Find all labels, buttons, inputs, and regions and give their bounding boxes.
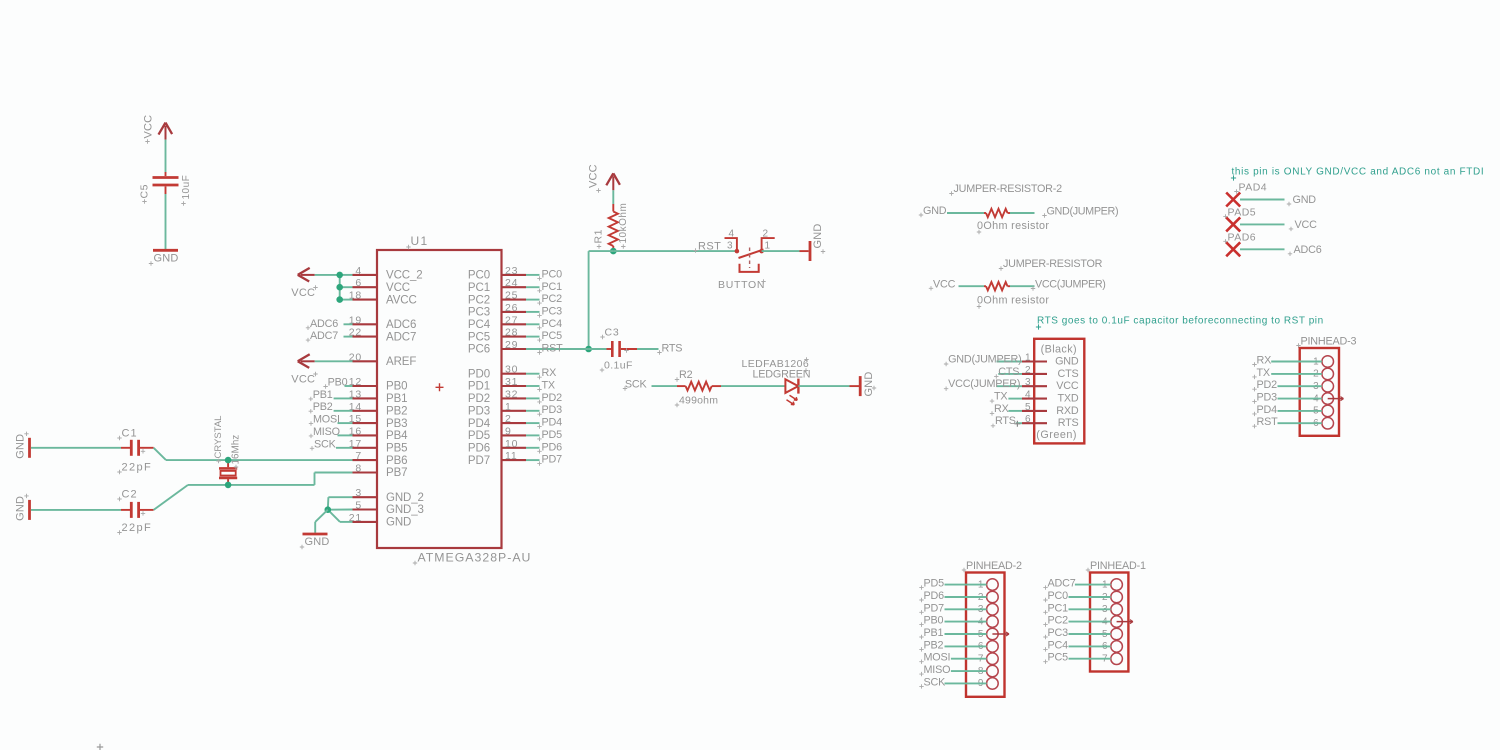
svg-text:GND(JUMPER): GND(JUMPER) — [1047, 206, 1119, 218]
wire and net label PC2 — [526, 293, 562, 305]
net label ADC7 — [306, 330, 353, 342]
svg-text:4: 4 — [1025, 390, 1031, 401]
wire GND to C1 — [31, 447, 121, 449]
svg-text:C3: C3 — [605, 327, 620, 339]
svg-text:PINHEAD-1: PINHEAD-1 — [1090, 560, 1146, 572]
svg-text:PB4: PB4 — [386, 430, 408, 442]
label LEDFAB1206 — [742, 357, 810, 370]
svg-text:PC1: PC1 — [1048, 602, 1069, 614]
svg-text:GND_3: GND_3 — [386, 504, 424, 516]
wire and net label PC5 — [526, 330, 562, 342]
button pin number 1 — [765, 241, 772, 252]
annotation text (RTS note) — [1036, 316, 1324, 330]
net label RST — [693, 241, 721, 253]
PINHEAD-2 pin 7 (MOSI) — [978, 653, 998, 665]
button pin number 4 — [728, 229, 735, 240]
svg-text:PINHEAD-2: PINHEAD-2 — [966, 560, 1022, 572]
svg-text:10uF: 10uF — [181, 175, 192, 200]
wire/net label VCC(JUMPER) (FTDI pin 3) — [944, 378, 1022, 391]
svg-text:25: 25 — [505, 290, 518, 302]
label C5 — [139, 184, 151, 204]
wire and net label PC4 — [526, 318, 562, 330]
value 0Ohm resistor (jumper2) — [977, 220, 1050, 234]
svg-text:RTS goes to 0.1uF capacitor be: RTS goes to 0.1uF capacitor beforeconnec… — [1037, 316, 1324, 327]
net label ADC6 (PAD6) — [1288, 244, 1322, 256]
wire and net label PD5 — [526, 429, 562, 441]
svg-text:ADC7: ADC7 — [1048, 578, 1076, 590]
svg-text:(Black): (Black) — [1041, 344, 1077, 356]
svg-text:R2: R2 — [679, 369, 693, 381]
svg-text:VCC: VCC — [1056, 380, 1079, 392]
svg-text:PD4: PD4 — [468, 418, 491, 430]
svg-text:MOSI: MOSI — [924, 652, 951, 664]
net label MOSI (U1 left) — [309, 414, 353, 426]
ground GND (LED) — [850, 371, 877, 396]
svg-text:(Green): (Green) — [1036, 429, 1077, 441]
U1 pin 9 (PD5) — [468, 425, 526, 442]
svg-text:GND: GND — [1293, 194, 1317, 206]
svg-text:RX: RX — [542, 367, 557, 379]
pad PAD4 — [1226, 182, 1267, 207]
connector PINHEAD-2 body — [962, 560, 1022, 697]
svg-text:PD5: PD5 — [924, 578, 945, 590]
pad PAD5 — [1223, 206, 1256, 231]
PINHEAD-3 pin 5 (PD4) — [1313, 405, 1333, 417]
wire junction to C3 — [589, 348, 607, 350]
label (Black) — [1041, 344, 1077, 356]
svg-text:PD7: PD7 — [468, 455, 490, 467]
svg-text:22pF: 22pF — [122, 522, 153, 534]
svg-text:8: 8 — [355, 463, 362, 475]
svg-text:2: 2 — [1025, 365, 1031, 376]
svg-text:VCC(JUMPER): VCC(JUMPER) — [1035, 279, 1106, 291]
svg-text:4: 4 — [355, 265, 362, 277]
U1 pin 5 (GND_3) — [353, 500, 424, 517]
part value ATMEGA328P-AU — [413, 551, 532, 566]
svg-text:VCC: VCC — [386, 282, 410, 294]
svg-text:1: 1 — [765, 241, 772, 252]
PINHEAD-3 pin 3 (PD2) — [1313, 380, 1333, 392]
svg-text:PC0: PC0 — [468, 270, 490, 282]
svg-text:4: 4 — [728, 229, 735, 240]
svg-text:PB2: PB2 — [924, 639, 944, 651]
U1 pin 30 (PD0) — [468, 364, 526, 381]
net label RTS — [657, 343, 682, 355]
wire and net label RX — [526, 367, 556, 379]
svg-text:29: 29 — [505, 339, 518, 351]
U1 pin 23 (PC0) — [468, 265, 526, 282]
net label GND(JUMPER) (jumper2) — [1042, 206, 1118, 218]
junction VCC bus 0 — [336, 272, 343, 279]
svg-text:SCK: SCK — [625, 378, 648, 390]
svg-text:1: 1 — [1025, 353, 1031, 364]
wire and net label PD7 — [526, 454, 562, 466]
button pin number 2 — [763, 229, 770, 240]
wire/net label PB2 (PINHEAD-2 pin 6) — [919, 639, 986, 651]
net label MISO (U1 left) — [309, 426, 353, 438]
U1 pin 28 (PC5) — [468, 327, 526, 344]
capacitor C2 — [121, 502, 154, 518]
power flag VCC (U1 supply) — [298, 268, 315, 282]
wire VCC to R1 — [612, 190, 614, 204]
svg-text:GND: GND — [15, 434, 27, 459]
svg-text:PD6: PD6 — [924, 590, 945, 602]
svg-text:ADC7: ADC7 — [310, 330, 338, 342]
label C2 — [117, 489, 137, 502]
ground GND (below U1) — [300, 534, 330, 549]
wire C2 to crystal net — [154, 473, 353, 510]
svg-text:GND: GND — [305, 536, 330, 548]
wire/net label PC5 (PINHEAD-1 pin 7) — [1043, 652, 1111, 664]
svg-text:CRYSTAL: CRYSTAL — [213, 416, 224, 459]
svg-text:10: 10 — [505, 438, 518, 450]
svg-text:22pF: 22pF — [122, 462, 153, 474]
annotation text (FTDI note) — [1231, 167, 1484, 181]
wire PAD4 to GND — [1240, 199, 1285, 201]
wire pin5 GND_3 — [328, 509, 353, 511]
U1 pin 3 (GND_2) — [353, 487, 424, 504]
svg-text:5: 5 — [355, 500, 362, 512]
wire/net label PC3 (PINHEAD-1 pin 5) — [1043, 627, 1111, 639]
resistor 0Ohm (jumper1) — [984, 282, 1010, 290]
wire/net label PD6 (PINHEAD-2 pin 2) — [919, 590, 986, 602]
wire/net label MISO (PINHEAD-2 pin 8) — [919, 664, 986, 676]
svg-text:RTS: RTS — [995, 415, 1016, 427]
PINHEAD-2 pin 5 (PB1) — [978, 628, 1009, 640]
svg-text:PD6: PD6 — [468, 443, 490, 455]
U1 pin 24 (PC1) — [468, 277, 526, 294]
svg-text:6: 6 — [355, 277, 362, 289]
svg-text:PD6: PD6 — [542, 441, 563, 453]
wire PAD6 to ADC6 — [1240, 248, 1285, 250]
wire/net label RST (PINHEAD-3 pin 6) — [1252, 416, 1322, 428]
ground GND (C2) — [15, 494, 30, 521]
label R2 — [675, 369, 693, 382]
svg-text:R1: R1 — [593, 229, 605, 243]
wire R to VCC(JUMPER) — [1010, 285, 1035, 287]
ground GND (C1) — [15, 432, 30, 459]
U1 pin 17 (PB5) — [349, 438, 408, 455]
svg-text:PD4: PD4 — [542, 417, 563, 429]
svg-text:VCC: VCC — [143, 115, 155, 139]
PINHEAD-3 pin 4 (PD3) — [1313, 393, 1343, 405]
part title JUMPER-RESISTOR-2 — [949, 183, 1062, 196]
resistor R1 — [609, 204, 618, 249]
wire and net label PC0 — [526, 268, 562, 280]
ground GND (below C5) — [149, 250, 179, 265]
wire RST node to button — [613, 250, 737, 252]
svg-text:PC2: PC2 — [1048, 615, 1069, 627]
wire/net label RTS (FTDI pin 6) — [991, 415, 1022, 428]
wire VCC to R jumper1 — [959, 285, 985, 287]
op-amp-style IC body U1 (ATMEGA328P-AU) — [377, 250, 502, 548]
junction VCC bus 2 — [336, 296, 343, 303]
net label SCK (LED net) — [623, 378, 648, 390]
power flag VCC (R1) — [606, 173, 620, 190]
wire bus to pin row 0 — [340, 274, 353, 276]
svg-text:RXD: RXD — [1056, 405, 1079, 417]
U1 pin 31 (PD1) — [468, 376, 526, 393]
button plunger dashes — [749, 248, 751, 269]
U1 pin 22 (ADC7) — [349, 327, 417, 344]
U1 pin 1 (PD3) — [468, 401, 526, 418]
svg-text:PB2: PB2 — [386, 405, 407, 417]
svg-text:PB7: PB7 — [386, 467, 407, 479]
value 22pF (C1) — [117, 462, 152, 475]
button actuator — [739, 250, 764, 259]
wire pin3 GND_2 — [328, 497, 353, 510]
svg-text:VCC: VCC — [291, 374, 315, 386]
svg-text:JUMPER-RESISTOR: JUMPER-RESISTOR — [1003, 258, 1103, 270]
wire/net label PC2 (PINHEAD-1 pin 4) — [1043, 615, 1111, 627]
U1 pin 4 (VCC_2) — [353, 265, 423, 282]
button contact 1 — [759, 249, 764, 254]
wire LED to GND — [798, 385, 849, 387]
svg-text:ADC6: ADC6 — [310, 318, 338, 330]
svg-text:VCC: VCC — [1295, 219, 1318, 231]
svg-text:VCC: VCC — [933, 278, 956, 290]
svg-text:24: 24 — [505, 277, 518, 289]
svg-text:GND: GND — [812, 223, 824, 248]
svg-text:TXD: TXD — [1058, 393, 1079, 405]
U1 pin 10 (PD6) — [468, 438, 526, 455]
svg-text:GND: GND — [863, 371, 875, 396]
net label GND (PAD4) — [1287, 194, 1316, 206]
PINHEAD-1 pin 2 (PC0) — [1102, 591, 1122, 603]
svg-text:28: 28 — [505, 327, 518, 339]
capacitor C3 — [607, 341, 638, 357]
junction VCC bus 1 — [336, 284, 343, 291]
PINHEAD-2 pin 9 (SCK) — [978, 678, 998, 690]
wire/net label TX (FTDI pin 4) — [990, 391, 1022, 404]
net label VCC (PAD5) — [1289, 219, 1317, 231]
connector PINHEAD-1 body — [1086, 560, 1146, 672]
U1 pin 12 (PB0) — [349, 376, 408, 393]
U1 pin 25 (PC2) — [468, 290, 526, 307]
net label PB2 (U1 left) — [309, 401, 353, 413]
wire PAD5 to VCC — [1240, 223, 1285, 225]
wire/net label ADC7 (PINHEAD-1 pin 1) — [1043, 578, 1111, 590]
PINHEAD-1 pin 3 (PC1) — [1102, 604, 1122, 616]
wire/net label TX (PINHEAD-3 pin 2) — [1252, 367, 1322, 379]
crystal Q (16Mhz) — [219, 460, 237, 485]
svg-text:3: 3 — [355, 487, 362, 499]
wire and net label PD2 — [526, 392, 562, 404]
svg-text:PD2: PD2 — [542, 392, 563, 404]
svg-text:2: 2 — [505, 413, 512, 425]
svg-text:0Ohm resistor: 0Ohm resistor — [977, 295, 1049, 307]
svg-text:ADC6: ADC6 — [1294, 244, 1322, 256]
wire R1 to RST node — [612, 249, 614, 252]
wire and net label PD4 — [526, 417, 562, 429]
wire and net label PD3 — [526, 404, 562, 416]
power flag VCC (AREF) — [298, 354, 315, 368]
FTDI pin 4 (TXD) — [1022, 390, 1079, 405]
wire VCC arrow to bus — [315, 274, 340, 276]
power flag VCC (C5 net) — [159, 123, 173, 140]
svg-text:MOSI: MOSI — [313, 414, 340, 426]
svg-text:PC2: PC2 — [468, 294, 490, 306]
net label PB1 (U1 left) — [309, 389, 353, 401]
svg-text:0Ohm resistor: 0Ohm resistor — [977, 220, 1049, 232]
wire/net label SCK (PINHEAD-2 pin 9) — [919, 676, 986, 688]
button pin number 3 — [727, 241, 734, 252]
junction crystal top — [225, 457, 232, 464]
svg-text:26: 26 — [505, 302, 518, 314]
wire/net label PB1 (PINHEAD-2 pin 5) — [919, 627, 986, 639]
label VCC (AREF) — [291, 372, 317, 386]
net label SCK (U1 left) — [310, 438, 353, 450]
svg-text:GND: GND — [923, 205, 947, 217]
PINHEAD-2 pin 8 (MISO) — [978, 665, 998, 677]
U1 pin 8 (PB7) — [353, 463, 408, 480]
svg-text:PB0: PB0 — [386, 381, 407, 393]
U1 pin 16 (PB4) — [349, 425, 408, 442]
stray origin cross (bottom left) — [97, 744, 103, 750]
svg-text:TX: TX — [542, 380, 555, 392]
LED D1 (LEDGREEN) — [785, 379, 798, 394]
FTDI pin 5 (RXD) — [1022, 402, 1079, 417]
value 10uF — [181, 175, 192, 206]
wire RST node down to pin29 net — [589, 251, 614, 349]
svg-text:MISO: MISO — [313, 426, 340, 438]
svg-text:23: 23 — [505, 265, 518, 277]
wire GND to R jumper2 — [947, 212, 984, 214]
svg-text:16Mhz: 16Mhz — [231, 435, 242, 465]
svg-text:AREF: AREF — [386, 356, 416, 368]
svg-text:PC0: PC0 — [542, 268, 563, 280]
svg-text:PC1: PC1 — [468, 282, 490, 294]
svg-text:VCC: VCC — [291, 287, 315, 299]
svg-text:11: 11 — [505, 450, 518, 462]
svg-text:AVCC: AVCC — [386, 294, 417, 306]
svg-text:3: 3 — [727, 241, 734, 252]
svg-text:PC5: PC5 — [1048, 652, 1069, 664]
svg-text:CTS: CTS — [998, 366, 1019, 378]
U1 pin 13 (PB1) — [349, 388, 408, 405]
pad PAD6 — [1223, 231, 1256, 256]
svg-text:GND: GND — [154, 253, 179, 265]
svg-text:PC4: PC4 — [468, 319, 491, 331]
U1 pin 26 (PC3) — [468, 302, 526, 319]
U1 pin 11 (PD7) — [468, 450, 526, 467]
svg-text:PC2: PC2 — [542, 293, 563, 305]
wire GND to C2 — [31, 509, 121, 511]
capacitor C5 — [153, 172, 179, 194]
svg-text:PC1: PC1 — [542, 281, 563, 293]
label VCC (vertical, C5 net) — [143, 115, 155, 144]
wire and net label PC1 — [526, 281, 562, 293]
junction RST/C3 — [585, 346, 592, 353]
svg-text:PC3: PC3 — [468, 307, 490, 319]
svg-text:GND_2: GND_2 — [386, 492, 424, 504]
pushbutton S1 (BUTTON) pin4 lead — [725, 238, 737, 251]
svg-text:RTS: RTS — [1058, 417, 1079, 429]
svg-text:SCK: SCK — [924, 676, 947, 688]
svg-text:1: 1 — [505, 401, 512, 413]
value 0.1uF — [600, 360, 633, 373]
svg-text:ATMEGA328P-AU: ATMEGA328P-AU — [418, 551, 532, 565]
svg-text:PC3: PC3 — [1048, 627, 1069, 639]
svg-text:PB1: PB1 — [386, 393, 407, 405]
svg-text:TX: TX — [1257, 367, 1270, 379]
svg-text:PD2: PD2 — [468, 393, 490, 405]
net label ADC6 — [306, 318, 353, 330]
wire/net label PC1 (PINHEAD-1 pin 3) — [1043, 602, 1111, 614]
connector J1 FTDI body — [1034, 339, 1084, 444]
FTDI pin 2 (CTS) — [1022, 365, 1079, 380]
U1 pin 2 (PD4) — [468, 413, 526, 430]
label BUTTON — [718, 279, 766, 291]
svg-text:PC5: PC5 — [542, 330, 563, 342]
U1 pin 14 (PB2) — [349, 401, 408, 418]
wire/net label MOSI (PINHEAD-2 pin 7) — [919, 652, 986, 664]
wire pin21 GND — [328, 510, 353, 522]
PINHEAD-2 pin 2 (PD6) — [978, 591, 998, 603]
U1 pin 32 (PD2) — [468, 388, 526, 405]
svg-text:PB1: PB1 — [313, 389, 333, 401]
svg-text:TX: TX — [994, 391, 1007, 403]
U1 pin 6 (VCC) — [353, 277, 410, 294]
svg-text:PB3: PB3 — [386, 418, 407, 430]
svg-text:ADC7: ADC7 — [386, 331, 416, 343]
svg-text:C5: C5 — [139, 184, 151, 199]
wire SCK to R2 — [652, 385, 678, 387]
svg-text:PAD6: PAD6 — [1228, 231, 1257, 243]
FTDI RTS origin cross — [1014, 421, 1020, 427]
svg-text:10kOhm: 10kOhm — [618, 203, 629, 244]
net label RST (pin29) — [537, 343, 563, 355]
capacitor C1 — [121, 440, 154, 456]
net label VCC(JUMPER) (jumper1) — [1031, 279, 1106, 291]
wire AREF — [315, 360, 353, 362]
FTDI pin 6 (RTS) — [1022, 414, 1079, 429]
U1 pin 29 (PC6) — [468, 339, 526, 356]
PINHEAD-2 pin 3 (PD7) — [978, 604, 998, 616]
wire/net label PD4 (PINHEAD-3 pin 5) — [1252, 404, 1322, 416]
svg-text:5: 5 — [1025, 402, 1031, 413]
FTDI pin 3 (VCC) — [1022, 377, 1079, 392]
svg-text:C2: C2 — [122, 489, 138, 501]
svg-text:PC0: PC0 — [1048, 590, 1069, 602]
PINHEAD-3 pin 2 (TX) — [1313, 368, 1333, 380]
wire R to GND(JUMPER) — [1010, 212, 1035, 214]
PINHEAD-2 pin 4 (PB0) — [978, 616, 998, 628]
wire R2 to LED — [721, 385, 785, 387]
PINHEAD-1 pin 1 (ADC7) — [1102, 579, 1122, 591]
wire/net label PD3 (PINHEAD-3 pin 4) — [1252, 392, 1322, 404]
reference designator U1 — [406, 234, 428, 249]
svg-text:PB0: PB0 — [924, 615, 944, 627]
svg-text:7: 7 — [355, 450, 362, 462]
resistor R2 — [677, 382, 721, 391]
connector PINHEAD-3 body — [1296, 336, 1356, 436]
wire/net label GND(JUMPER) (FTDI pin 1) — [944, 354, 1022, 367]
wire/net label CTS (FTDI pin 2) — [994, 366, 1022, 379]
wire VCC bus vertical — [339, 275, 341, 300]
IC origin cross — [436, 383, 444, 391]
svg-text:this pin is ONLY GND/VCC and A: this pin is ONLY GND/VCC and ADC6 not an… — [1232, 167, 1485, 178]
wire C1 to crystal net — [154, 448, 353, 460]
wire/net label RX (FTDI pin 5) — [990, 403, 1022, 416]
junction crystal bottom — [225, 482, 232, 489]
ground GND (button) — [800, 223, 826, 261]
svg-text:PC3: PC3 — [542, 305, 563, 317]
value 0Ohm resistor (jumper1) — [977, 295, 1050, 309]
svg-text:6: 6 — [1025, 414, 1031, 425]
label R1 — [593, 229, 605, 249]
U1 pin 15 (PB3) — [349, 413, 408, 430]
